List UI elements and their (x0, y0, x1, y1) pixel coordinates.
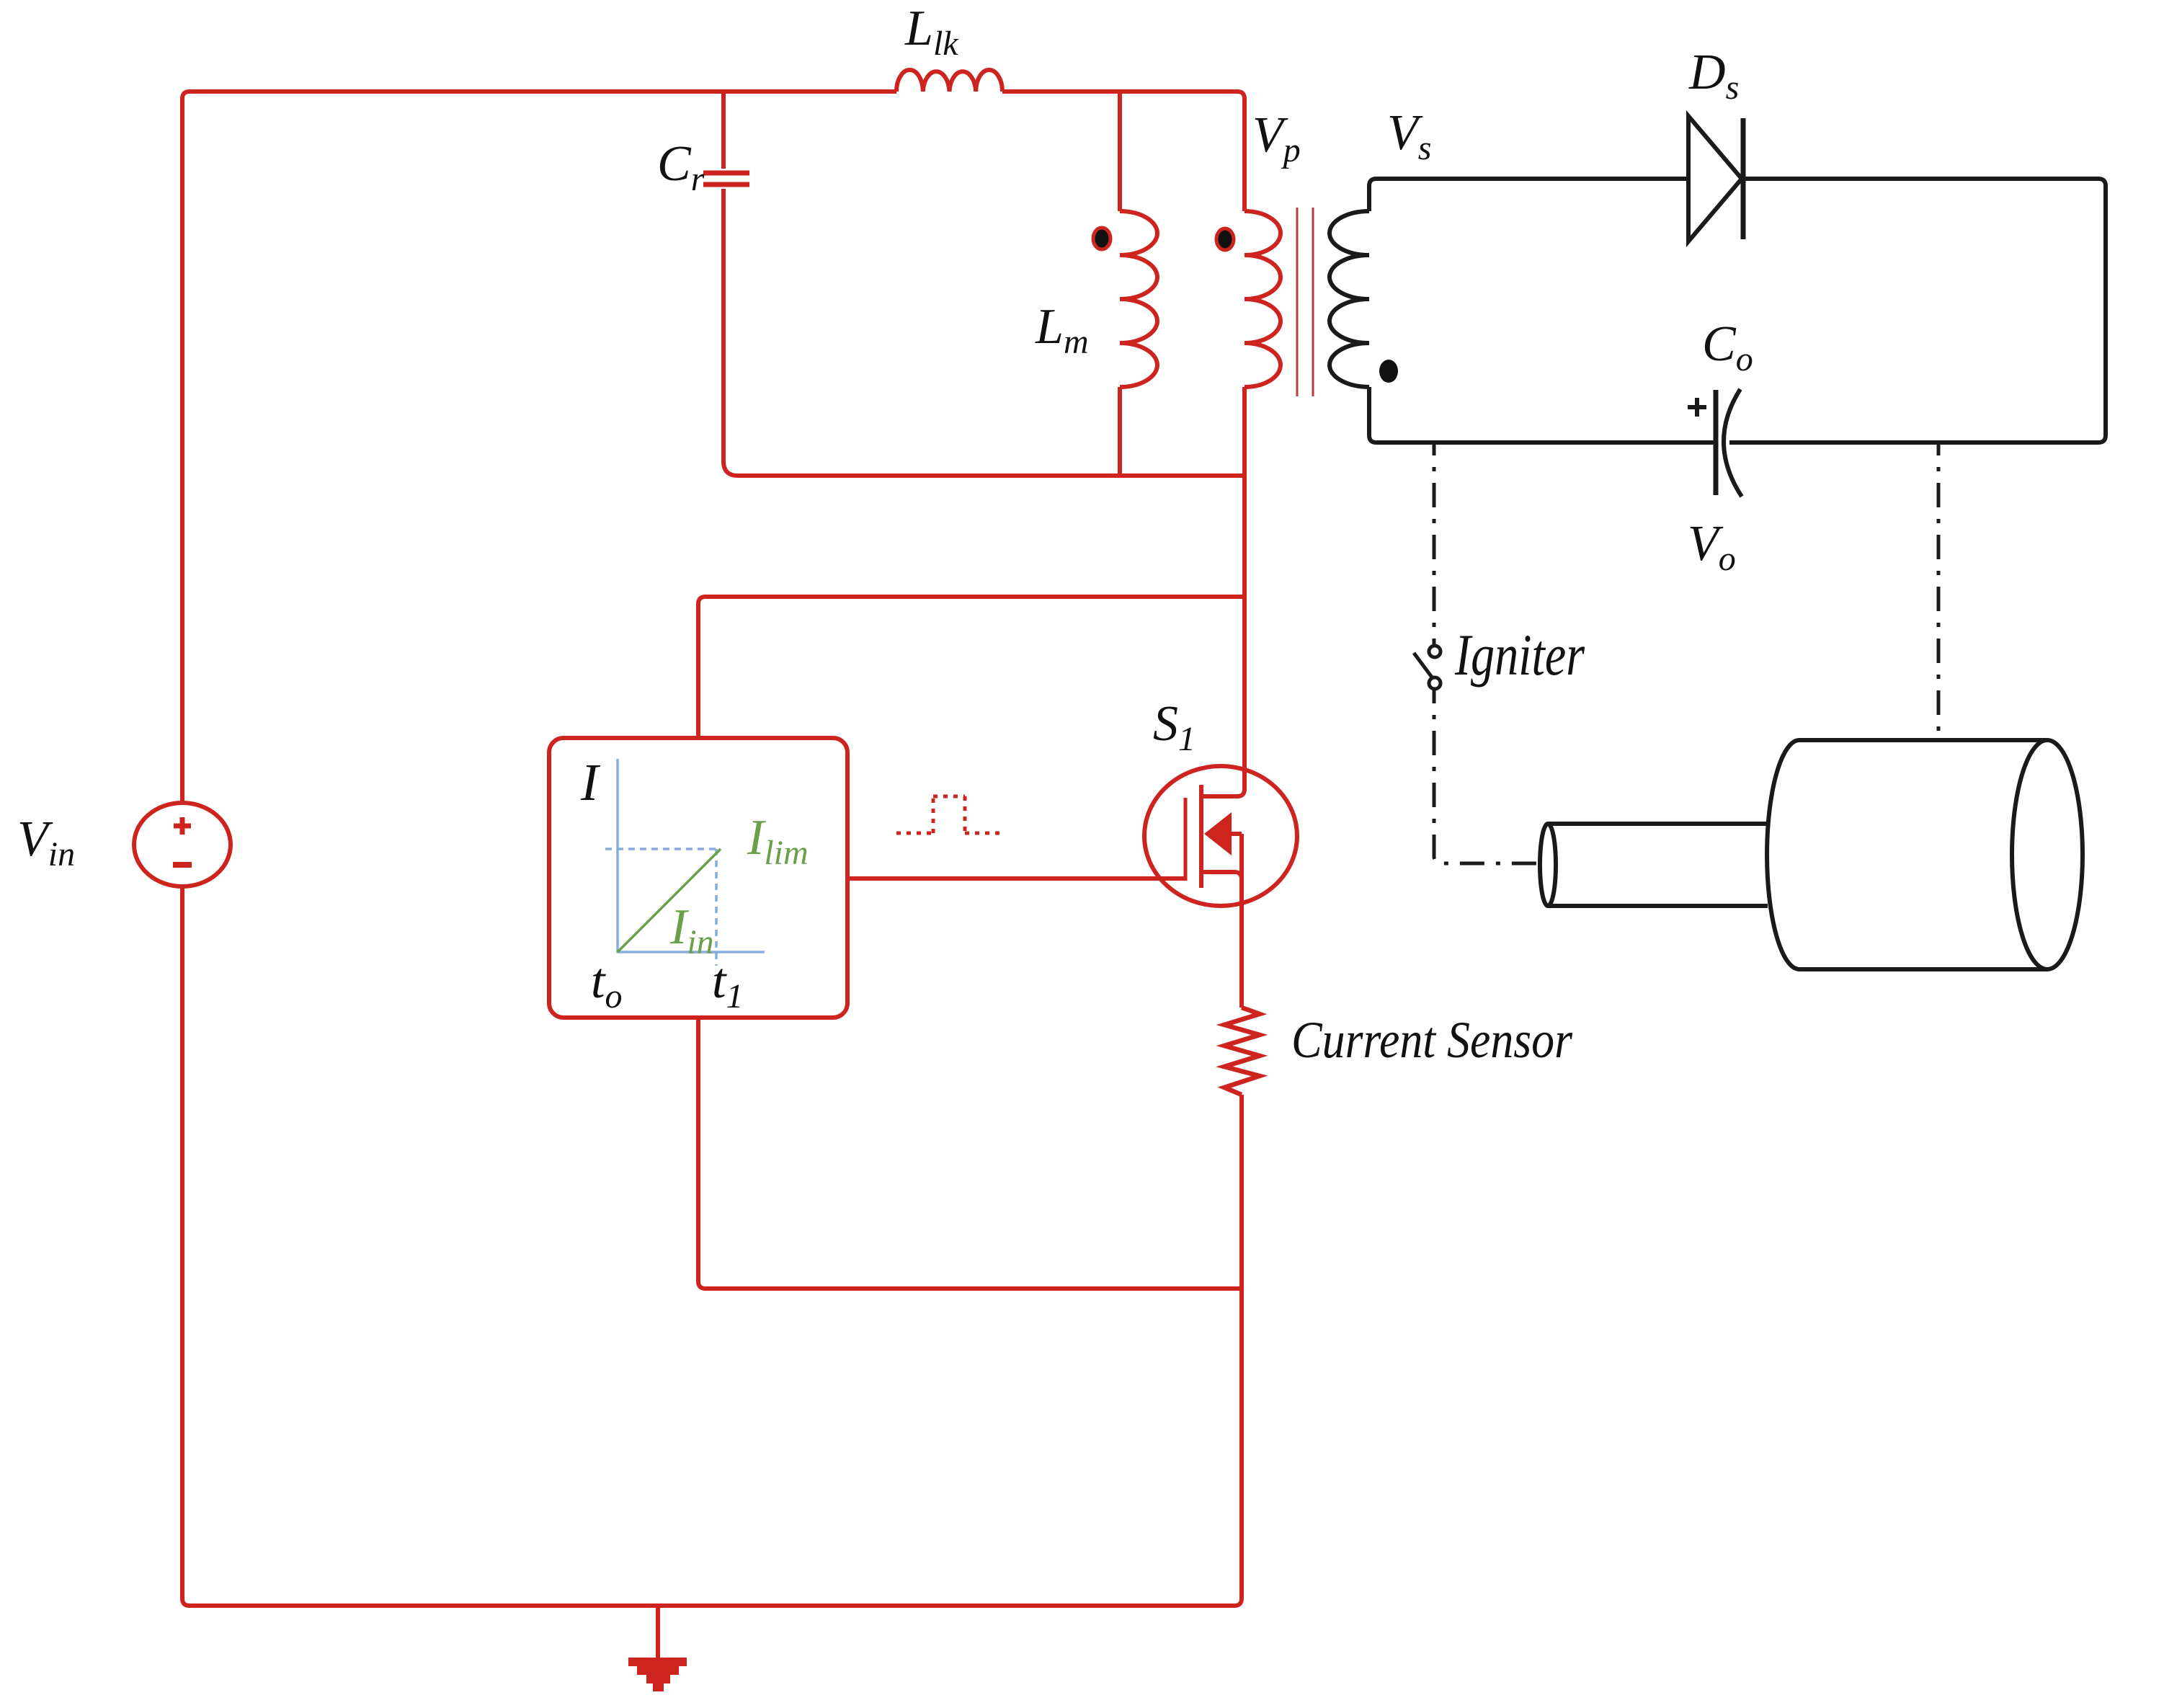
winding dot (Lm) (1093, 228, 1110, 249)
wire: gate-loop top (controller to drain line) (698, 597, 1244, 738)
graph axes (618, 759, 765, 952)
diode Ds cathode bar (1741, 118, 1746, 239)
winding dot (Vp) (1216, 228, 1234, 250)
wire: below current sensor to bottom-right corner (1234, 1095, 1242, 1606)
wire: Lm bottom stub (1118, 387, 1122, 476)
graph ramp line Iin (618, 849, 721, 952)
inductor Lm winding (1120, 211, 1157, 387)
resistor Current Sensor (1224, 1008, 1260, 1095)
transistor S1 MOSFET body circle (1144, 766, 1297, 906)
wire: bottom rail from Vs corner to Co left plate (1369, 387, 1714, 442)
controller graph (605, 759, 765, 966)
switch Igniter (1414, 646, 1441, 689)
diode Ds triangle (1688, 116, 1742, 241)
wire: gate-loop bottom (controller to source line) (698, 1018, 1242, 1289)
wire: left rail from top-left corner down to Vin source (182, 92, 190, 803)
capacitor Co left plate (1714, 390, 1719, 495)
MOSFET gate bar (1184, 798, 1188, 881)
transformer core lines (1297, 208, 1313, 396)
graph dashed guides (605, 849, 717, 966)
transformer primary Vp winding (1244, 211, 1281, 387)
Vin minus sign (173, 862, 192, 868)
ground symbol (628, 1658, 687, 1691)
igniter plug (small cylinder) (1540, 824, 1768, 906)
svg-text:Current Sensor: Current Sensor (1291, 1011, 1573, 1069)
thruster right end ellipse (2012, 740, 2083, 969)
voltage source Vin circle (134, 803, 231, 886)
capacitor Cr (703, 173, 749, 184)
Vin plus sign (174, 817, 191, 835)
dash-dot igniter line (left) (1434, 442, 1938, 863)
MOSFET arrow (1204, 812, 1232, 855)
wire: Cr bottom stub down and corner to transformer bottom rail (723, 189, 1244, 476)
svg-text:I: I (580, 753, 601, 811)
wire: Cr top stub (721, 92, 726, 169)
wire: diode cathode to right corner, right rail down, bottom rail to Co (1729, 179, 2106, 442)
Co plus sign (1688, 398, 1706, 417)
capacitor Co curved plate (1724, 389, 1742, 497)
wire: top rail from Llk to Vp corner (1002, 92, 1244, 211)
MOSFET channel bar (1199, 785, 1203, 888)
svg-text:Igniter: Igniter (1454, 622, 1585, 688)
thruster body (big cylinder) (1767, 740, 2083, 969)
wire: dash-dot from igniter switch down and right to plug (1434, 690, 1536, 863)
wire: ground stub (656, 1606, 660, 1658)
wire: source line from MOSFET to current sensor (1239, 834, 1244, 1008)
winding dot (Vs) (1379, 360, 1398, 383)
transformer secondary Vs winding (1330, 211, 1369, 387)
wire: Vs top stub and top rail to diode (1369, 179, 1688, 211)
wire: Lm top stub (1118, 92, 1122, 211)
wire: left rail below Vin down to bottom-left corner and bottom rail to ground stub (182, 886, 1234, 1606)
gate pulse waveform (dashed red) (896, 796, 999, 833)
controller box (549, 738, 847, 1018)
MOSFET source stub (1201, 872, 1242, 879)
wire: gate wire from controller to MOSFET gate (847, 876, 1185, 881)
wire: dash-dot right drop to thruster (1937, 442, 1941, 738)
MOSFET body stub (1225, 832, 1242, 836)
thruster left end-cap arc (1767, 740, 1799, 969)
wire: top rail from corner to Llk (190, 89, 896, 94)
wire: dash-dot from output bottom rail to igniter switch (1433, 442, 1436, 644)
wire: main drain line from Vp bottom to MOSFET drain stub (1201, 387, 1244, 796)
inductor Llk (896, 70, 1002, 92)
